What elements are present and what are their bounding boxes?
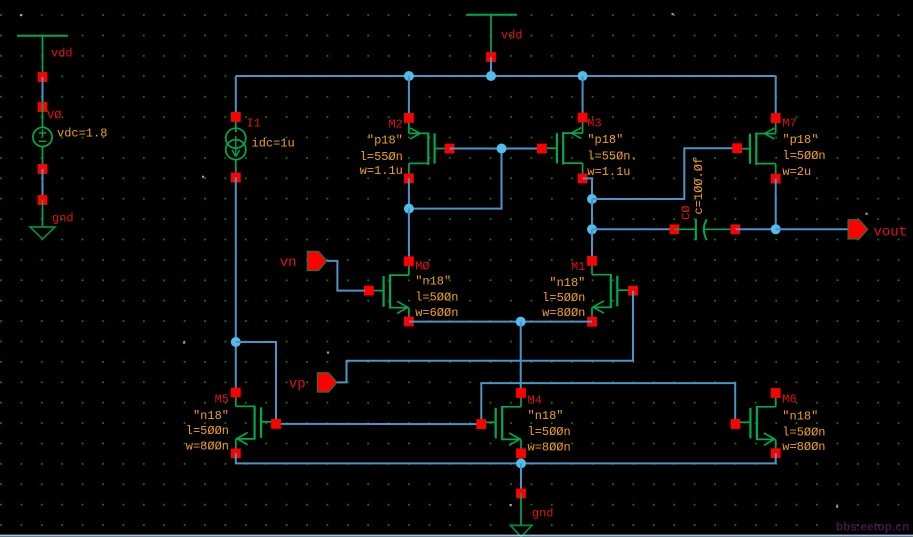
svg-text:I1: I1: [247, 117, 261, 131]
svg-text:bbs.eetop.cn: bbs.eetop.cn: [836, 522, 909, 534]
pin M7 source: [771, 113, 781, 123]
node mirror gates: [497, 144, 507, 154]
pin M4 source: [516, 448, 526, 458]
node vdd-supply: [486, 71, 496, 81]
transistor M4: [520, 397, 522, 407]
node vdd-M3: [578, 71, 588, 81]
wire tail down: [520, 322, 522, 389]
wire cap right: [735, 228, 775, 230]
pin M5 drain: [231, 388, 241, 398]
pin M6 gate: [731, 419, 741, 429]
transistor M7: [775, 122, 777, 134]
svg-text:w=6ØØn: w=6ØØn: [415, 306, 458, 320]
wire cap left: [592, 228, 670, 230]
power symbol vdd (top): [466, 14, 517, 16]
svg-text:w=2u: w=2u: [782, 165, 811, 179]
pin M5 gate: [271, 419, 281, 429]
svg-text:l=55Øn: l=55Øn: [360, 150, 403, 164]
svg-text:"n18": "n18": [528, 409, 564, 423]
node vdd-M2: [404, 71, 414, 81]
pin C0 left: [670, 224, 680, 234]
svg-text:w=8ØØn: w=8ØØn: [528, 441, 571, 455]
wire rail to M7: [775, 76, 777, 114]
svg-text:c=1ØØ.Øf: c=1ØØ.Øf: [692, 157, 706, 215]
capacitor C0: [674, 228, 696, 230]
svg-text:"n18": "n18": [193, 409, 229, 423]
transistor M2: [408, 122, 410, 133]
wire vn to M0 gate: [327, 261, 365, 291]
svg-text:MØ: MØ: [415, 259, 429, 273]
wire I1 to M5 drain: [235, 178, 237, 389]
wire rail to M2: [408, 76, 410, 114]
svg-text:vdd: vdd: [51, 47, 73, 61]
pin vdd (top): [486, 52, 496, 62]
pin M2 gate: [445, 144, 455, 154]
wire V0 to gnd: [42, 169, 44, 196]
pin M1 drain: [587, 256, 597, 266]
wire vdd stub: [490, 57, 492, 76]
wire vdd rail: [236, 75, 776, 77]
pin M5 source: [231, 449, 241, 459]
pin M1 gate: [628, 286, 638, 296]
wire gate M2-M3: [450, 148, 538, 150]
transistor M0: [408, 265, 410, 275]
pin M6 drain: [771, 388, 781, 398]
wire M4 gate to M6 gate: [481, 383, 735, 424]
svg-text:w=1.1u: w=1.1u: [587, 165, 630, 179]
svg-text:M4: M4: [528, 394, 542, 408]
ground symbol (bottom): [520, 494, 522, 526]
wire M5 gate to M4 gate: [276, 423, 481, 425]
wire to M1 drain: [591, 229, 593, 257]
node bias: [231, 337, 241, 347]
svg-text:M3: M3: [587, 116, 601, 130]
pin M4 gate: [476, 419, 486, 429]
svg-text:M1: M1: [571, 260, 585, 274]
svg-text:"p18": "p18": [782, 133, 818, 147]
wire vdd to V0: [42, 77, 44, 103]
wire M2 diode loop: [409, 149, 502, 209]
node stage2 gate tap: [587, 194, 597, 204]
svg-text:M5: M5: [215, 393, 229, 407]
pin C0 right: [731, 224, 741, 234]
window bottom edge: [0, 535, 913, 537]
pin I1 bottom: [231, 173, 241, 183]
ground symbol (left): [42, 200, 44, 227]
svg-text:vn: vn: [280, 255, 297, 271]
voltage source V0: [33, 127, 52, 146]
svg-text:w=8ØØn: w=8ØØn: [542, 306, 585, 320]
node vout: [771, 224, 781, 234]
transistor M5: [235, 397, 237, 407]
svg-text:w=8ØØn: w=8ØØn: [186, 440, 229, 454]
pin M2 source: [404, 113, 414, 123]
svg-text:idc=1u: idc=1u: [252, 137, 295, 151]
pin M0 source: [404, 317, 414, 327]
node gnd center: [516, 458, 526, 468]
node tail: [516, 317, 526, 327]
svg-text:w=1.1u: w=1.1u: [360, 164, 403, 178]
pin M7 gate: [732, 143, 742, 153]
pin M1 source: [587, 317, 597, 327]
svg-text:l=5ØØn: l=5ØØn: [415, 290, 458, 304]
svg-text:l=5ØØn: l=5ØØn: [542, 291, 585, 305]
pin M3 drain: [578, 174, 588, 184]
svg-text:vdd: vdd: [501, 29, 523, 43]
svg-text:vp: vp: [289, 376, 306, 392]
svg-text:"p18": "p18": [367, 134, 403, 148]
svg-text:vout: vout: [874, 224, 908, 240]
svg-text:"p18": "p18": [587, 133, 623, 147]
pin M7 drain: [771, 174, 781, 184]
node M2 drain-loop: [404, 204, 414, 214]
power symbol vdd (left): [17, 35, 68, 37]
svg-text:l=5ØØn: l=5ØØn: [186, 424, 229, 438]
pin gnd (bottom): [516, 489, 526, 499]
transistor M3: [582, 122, 584, 134]
pin M0 drain: [404, 256, 414, 266]
pin M0 gate: [364, 286, 374, 296]
node cap row: [587, 224, 597, 234]
wire M3 drain jog: [583, 178, 592, 199]
svg-text:VØ: VØ: [47, 109, 61, 123]
svg-text:"n18": "n18": [415, 275, 451, 289]
wire gnd drop: [520, 463, 522, 489]
current source I1: [226, 128, 246, 148]
pin V0 plus-wire top: [38, 72, 48, 82]
pin I1 top: [231, 112, 241, 122]
pin M2 drain: [404, 174, 414, 184]
svg-text:"n18": "n18": [782, 409, 818, 423]
pin V0 plus: [38, 102, 48, 112]
wire mirror to M0 drain: [408, 209, 410, 257]
svg-text:M7: M7: [782, 116, 796, 130]
wire down to cap row: [591, 199, 593, 229]
transistor M6: [775, 397, 777, 407]
wire vout: [776, 228, 849, 230]
svg-text:l=5ØØn: l=5ØØn: [782, 425, 825, 439]
wire to M7 gate: [592, 148, 733, 199]
wire rail to I1: [235, 76, 237, 113]
transistor M1: [591, 265, 593, 275]
pin V0 minus: [38, 164, 48, 174]
pin M3 gate: [537, 144, 547, 154]
svg-text:"n18": "n18": [549, 276, 585, 290]
port vn: [307, 251, 327, 270]
wire gnd rail: [236, 453, 776, 463]
svg-text:M2: M2: [388, 117, 402, 131]
svg-text:l=5ØØn: l=5ØØn: [528, 425, 571, 439]
wire M7 drain to vout node: [775, 179, 777, 230]
svg-text:w=8ØØn: w=8ØØn: [782, 440, 825, 454]
svg-text:M6: M6: [782, 392, 796, 406]
svg-text:l=55Øn.: l=55Øn.: [587, 149, 637, 163]
wire tail: [409, 321, 592, 323]
wire M2 drain down: [408, 178, 410, 208]
port vout: [848, 220, 868, 239]
pin M6 source: [771, 448, 781, 458]
svg-text:gnd: gnd: [532, 507, 554, 521]
port vp: [317, 373, 337, 392]
svg-text:vdc=1.8: vdc=1.8: [57, 127, 107, 141]
svg-text:l=5ØØn: l=5ØØn: [782, 149, 825, 163]
wire rail to M3: [582, 76, 584, 114]
wire bias loop: [236, 342, 276, 424]
pin M4 drain: [516, 388, 526, 398]
svg-text:gnd: gnd: [52, 212, 74, 226]
pin gnd (left): [38, 195, 48, 205]
pin M3 source: [578, 113, 588, 123]
wire vp to M1 gate: [337, 291, 633, 383]
